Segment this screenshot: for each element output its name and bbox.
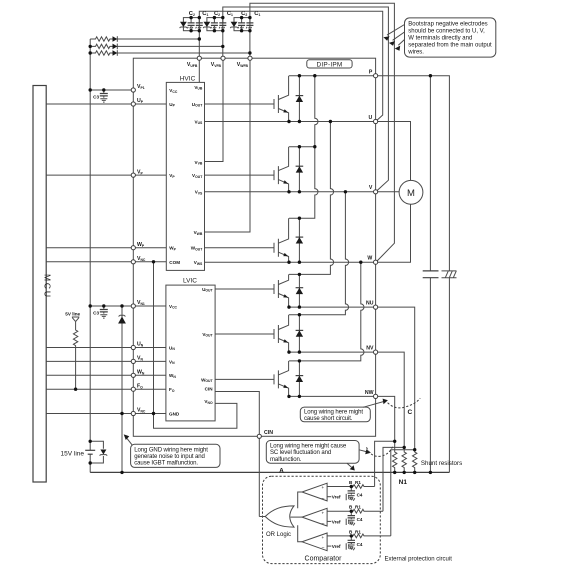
svg-text:HVIC: HVIC bbox=[180, 75, 196, 82]
svg-text:C4: C4 bbox=[357, 492, 363, 497]
svg-text:NU: NU bbox=[366, 301, 374, 307]
svg-text:Bootstrap negative electrodes: Bootstrap negative electrodes bbox=[408, 22, 487, 28]
svg-text:GND: GND bbox=[169, 411, 180, 416]
svg-text:separated from the main output: separated from the main output bbox=[408, 43, 492, 49]
svg-text:VWB: VWB bbox=[194, 230, 203, 236]
svg-text:malfunction.: malfunction. bbox=[270, 457, 302, 463]
svg-text:DIP-IPM: DIP-IPM bbox=[317, 61, 343, 68]
svg-text:Long wiring here might: Long wiring here might bbox=[304, 410, 363, 416]
svg-text:WP: WP bbox=[169, 246, 176, 252]
svg-text:P: P bbox=[369, 69, 373, 75]
svg-text:15V line: 15V line bbox=[61, 450, 85, 457]
svg-text:VUS: VUS bbox=[195, 119, 204, 125]
svg-text:MCU: MCU bbox=[43, 274, 53, 299]
svg-text:C3: C3 bbox=[93, 310, 99, 315]
svg-text:C3: C3 bbox=[93, 94, 99, 99]
svg-text:UN: UN bbox=[169, 345, 175, 351]
svg-text:−: − bbox=[321, 496, 324, 502]
svg-text:UP: UP bbox=[169, 102, 175, 108]
svg-text:WN: WN bbox=[169, 373, 176, 379]
svg-text:5V line: 5V line bbox=[65, 311, 80, 316]
svg-text:VOUT: VOUT bbox=[192, 173, 203, 179]
svg-text:VVB: VVB bbox=[195, 160, 203, 166]
svg-text:W terminals directly and: W terminals directly and bbox=[408, 36, 472, 42]
svg-text:W: W bbox=[367, 256, 372, 262]
svg-text:VWS: VWS bbox=[194, 260, 203, 266]
svg-text:R1: R1 bbox=[355, 505, 361, 510]
svg-text:WOUT: WOUT bbox=[201, 377, 213, 383]
svg-text:N1: N1 bbox=[399, 479, 408, 486]
svg-text:C4: C4 bbox=[357, 517, 363, 522]
svg-text:C: C bbox=[408, 409, 413, 416]
svg-text:+: + bbox=[322, 535, 325, 540]
svg-text:R1: R1 bbox=[355, 529, 361, 534]
svg-text:OR Logic: OR Logic bbox=[266, 532, 291, 538]
svg-text:UOUT: UOUT bbox=[202, 287, 213, 293]
svg-text:+: + bbox=[322, 510, 325, 515]
svg-text:−: − bbox=[321, 521, 324, 527]
svg-text:U: U bbox=[369, 115, 373, 121]
svg-text:WOUT: WOUT bbox=[191, 246, 203, 252]
svg-text:Comparator: Comparator bbox=[305, 555, 343, 562]
svg-text:generate noise to input and: generate noise to input and bbox=[134, 454, 205, 460]
svg-text:+: + bbox=[322, 485, 325, 490]
svg-text:should be connected to U, V,: should be connected to U, V, bbox=[408, 29, 485, 35]
svg-text:VN: VN bbox=[169, 359, 175, 365]
svg-text:VUB: VUB bbox=[194, 85, 203, 91]
svg-text:UOUT: UOUT bbox=[192, 102, 203, 108]
svg-text:A: A bbox=[279, 467, 284, 474]
svg-text:NW: NW bbox=[365, 390, 374, 396]
svg-text:LVIC: LVIC bbox=[183, 278, 197, 285]
svg-text:VCC: VCC bbox=[169, 88, 178, 94]
svg-text:Vref: Vref bbox=[332, 544, 341, 549]
svg-text:External protection circuit: External protection circuit bbox=[385, 557, 453, 563]
svg-text:Vref: Vref bbox=[332, 519, 341, 524]
svg-text:CIN: CIN bbox=[205, 386, 214, 391]
svg-text:VCC: VCC bbox=[169, 304, 178, 310]
svg-text:VVS: VVS bbox=[195, 190, 203, 196]
svg-text:VOUT: VOUT bbox=[202, 332, 213, 338]
svg-text:VP: VP bbox=[169, 173, 175, 179]
svg-text:VNO: VNO bbox=[204, 399, 213, 405]
svg-text:C4: C4 bbox=[357, 542, 363, 547]
svg-text:CIN: CIN bbox=[264, 430, 273, 436]
svg-text:wires.: wires. bbox=[407, 50, 424, 56]
svg-text:Long GND wiring here might: Long GND wiring here might bbox=[134, 447, 208, 453]
svg-text:COM: COM bbox=[169, 260, 180, 265]
svg-text:Long wiring here might cause: Long wiring here might cause bbox=[270, 444, 347, 450]
svg-text:cause short circuit.: cause short circuit. bbox=[304, 416, 353, 422]
svg-text:−: − bbox=[321, 546, 324, 552]
svg-text:M: M bbox=[407, 188, 415, 199]
svg-text:Vref: Vref bbox=[332, 495, 341, 500]
svg-text:V: V bbox=[369, 185, 373, 191]
svg-text:cause IGBT malfunction.: cause IGBT malfunction. bbox=[134, 461, 198, 467]
svg-text:Shunt resistors: Shunt resistors bbox=[421, 460, 462, 467]
svg-text:R1: R1 bbox=[355, 480, 361, 485]
svg-text:SC level fluctuation and: SC level fluctuation and bbox=[270, 450, 331, 456]
svg-text:FO: FO bbox=[169, 387, 175, 393]
svg-text:NV: NV bbox=[366, 346, 374, 352]
